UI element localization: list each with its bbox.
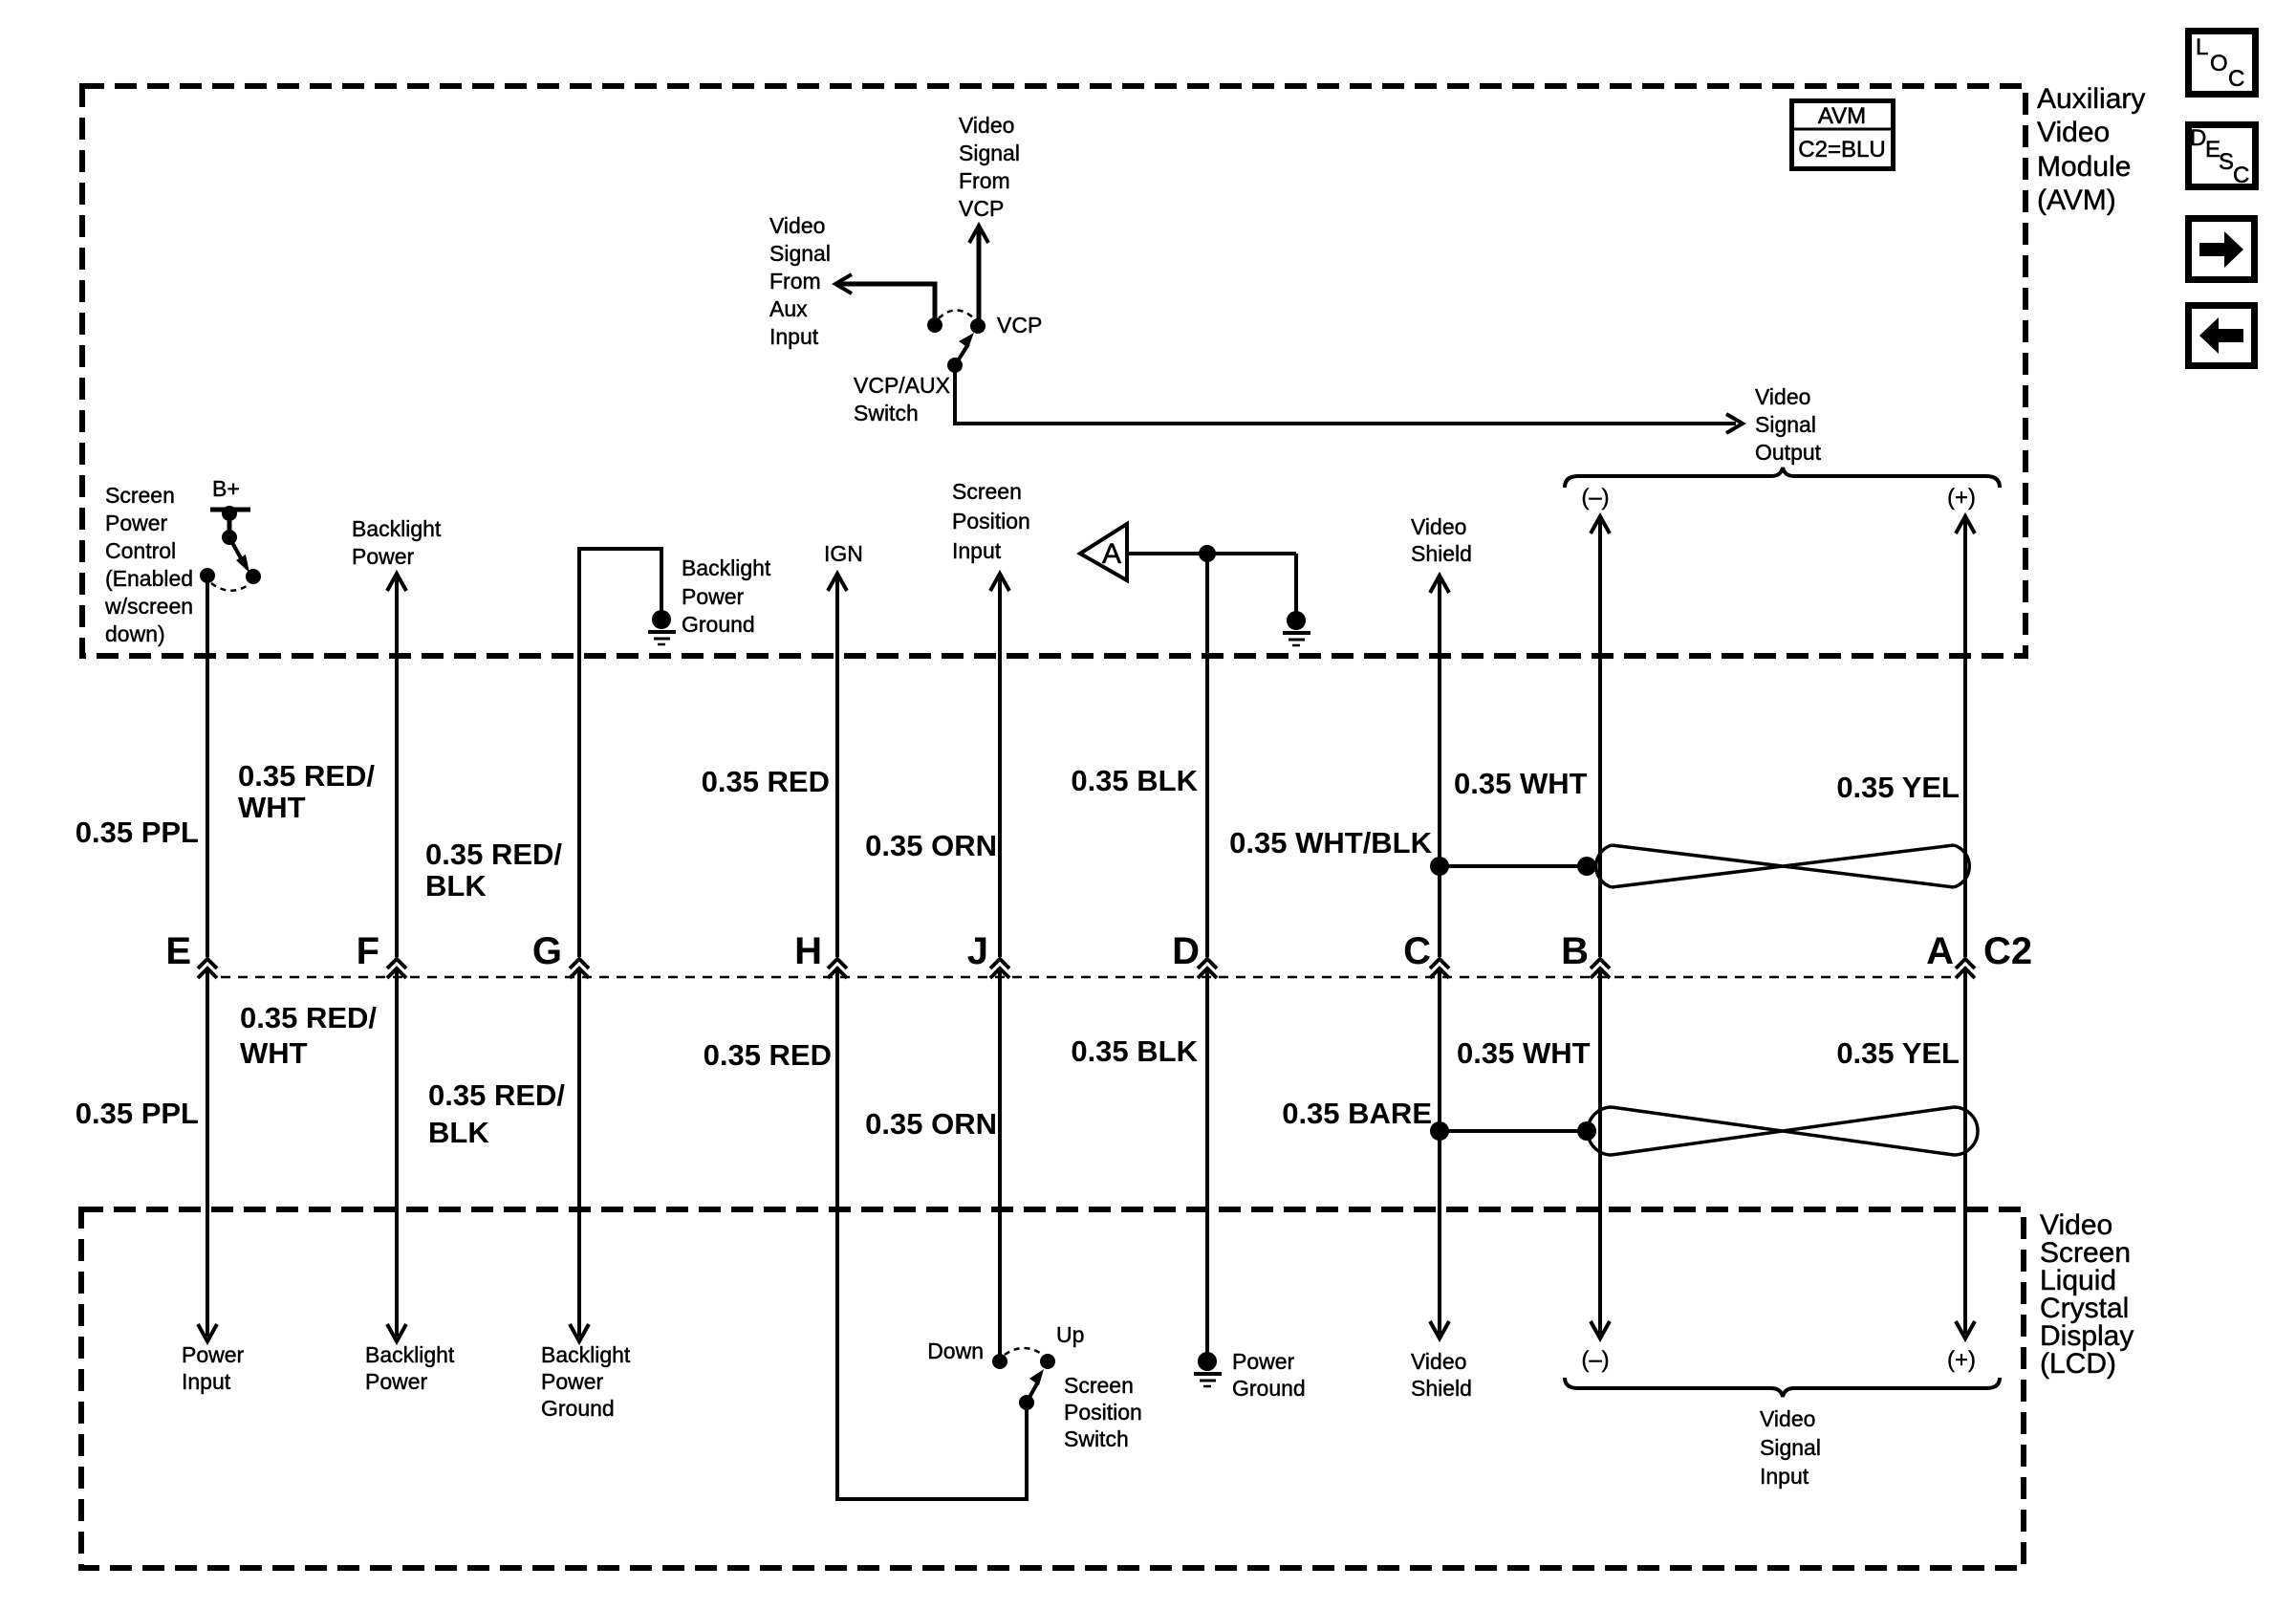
svg-text:w/screen: w/screen bbox=[104, 594, 193, 619]
svg-text:Ground: Ground bbox=[1232, 1376, 1306, 1401]
wire: B+ post to pivot bbox=[227, 513, 232, 537]
svg-text:C2=BLU: C2=BLU bbox=[1798, 137, 1885, 163]
wire B lower segment bbox=[1598, 969, 1602, 1334]
svg-text:Down: Down bbox=[927, 1338, 984, 1363]
arrowhead C video shield bbox=[1430, 1321, 1449, 1338]
switch lever screen power bbox=[229, 537, 249, 573]
label Video Signal Output bbox=[1755, 384, 1822, 465]
svg-text:D: D bbox=[2190, 125, 2206, 151]
svg-text:Backlight: Backlight bbox=[682, 555, 771, 580]
svg-text:Position: Position bbox=[1064, 1400, 1142, 1425]
wire C to B upper bbox=[1440, 864, 1587, 868]
svg-text:0.35 BLK: 0.35 BLK bbox=[1071, 764, 1198, 797]
wire C lower segment bbox=[1438, 969, 1441, 1334]
button arrow right bbox=[2189, 219, 2255, 280]
svg-text:From: From bbox=[769, 269, 821, 294]
svg-text:Signal: Signal bbox=[769, 241, 831, 266]
svg-text:C2: C2 bbox=[1983, 930, 2032, 972]
node: screen power right contact bbox=[246, 569, 261, 584]
wire D column vertical bbox=[1205, 554, 1209, 957]
button DESC bbox=[2189, 125, 2256, 189]
svg-text:A: A bbox=[1102, 538, 1121, 570]
wire C to B lower bbox=[1440, 1129, 1587, 1133]
wire G lower segment bbox=[577, 969, 581, 1337]
svg-text:BLK: BLK bbox=[428, 1116, 489, 1149]
connector pin F bbox=[387, 959, 406, 978]
svg-text:(–): (–) bbox=[1581, 485, 1609, 511]
svg-text:C: C bbox=[1403, 930, 1431, 972]
connector pin D bbox=[1198, 959, 1217, 978]
svg-text:Screen: Screen bbox=[952, 479, 1022, 504]
connector pin H bbox=[828, 959, 847, 978]
svg-text:B: B bbox=[1561, 930, 1589, 972]
svg-text:0.35 WHT/BLK: 0.35 WHT/BLK bbox=[1229, 826, 1432, 859]
svg-text:L: L bbox=[2196, 34, 2208, 60]
svg-text:Switch: Switch bbox=[854, 401, 919, 425]
wire F lower segment bbox=[395, 969, 399, 1337]
svg-text:Backlight: Backlight bbox=[352, 516, 442, 541]
svg-text:Video: Video bbox=[769, 213, 825, 238]
wire D lower segment bbox=[1205, 969, 1209, 1361]
svg-text:Video: Video bbox=[2037, 117, 2110, 148]
svg-text:Backlight: Backlight bbox=[365, 1342, 455, 1367]
svg-text:Input: Input bbox=[1760, 1464, 1809, 1489]
label Power Input bbox=[182, 1342, 245, 1394]
svg-text:Switch: Switch bbox=[1064, 1426, 1129, 1451]
svg-text:A: A bbox=[1926, 930, 1954, 972]
connector pin A bbox=[1956, 959, 1975, 978]
wire B minus with up arrow bbox=[1591, 516, 1610, 957]
label Screen Power Control (Enabled w/screen down) bbox=[104, 483, 193, 646]
twisted pair upper bbox=[1596, 845, 1970, 887]
svg-text:Output: Output bbox=[1755, 440, 1822, 465]
svg-text:0.35 RED/: 0.35 RED/ bbox=[428, 1078, 565, 1112]
svg-text:(–): (–) bbox=[1581, 1347, 1609, 1373]
svg-text:Video: Video bbox=[1411, 514, 1466, 539]
node: B twisted junction upper bbox=[1577, 857, 1596, 876]
svg-text:Backlight: Backlight bbox=[541, 1342, 631, 1367]
svg-text:F: F bbox=[357, 930, 379, 972]
svg-text:Ground: Ground bbox=[682, 612, 755, 637]
wire: aux input left arrow bbox=[835, 274, 935, 324]
switch arc (dashed) screen position bbox=[1005, 1348, 1043, 1355]
svg-text:VCP: VCP bbox=[997, 313, 1042, 337]
wire J screen position input with up arrow bbox=[990, 574, 1009, 957]
wire F backlight power with up arrow bbox=[387, 574, 406, 957]
svg-text:(+): (+) bbox=[1947, 485, 1976, 511]
svg-text:Signal: Signal bbox=[1755, 412, 1816, 437]
LCD side label bbox=[2040, 1209, 2134, 1380]
svg-text:0.35 WHT: 0.35 WHT bbox=[1454, 767, 1588, 800]
switch lever screen position bbox=[1027, 1369, 1044, 1403]
node: screen power switch pivot bbox=[222, 530, 237, 545]
svg-text:Power: Power bbox=[105, 511, 168, 535]
svg-text:B+: B+ bbox=[212, 476, 240, 501]
switch arc (dashed) screen power bbox=[211, 583, 249, 591]
svg-text:Input: Input bbox=[769, 324, 819, 349]
brace for video signal input pins bbox=[1565, 1378, 2000, 1397]
connector pin E bbox=[198, 959, 217, 978]
label Screen Position Input (AVM pin J) bbox=[952, 479, 1030, 563]
Auxiliary Video Module (AVM) dashed enclosure bbox=[82, 86, 2025, 656]
wire D junction drop to ground bbox=[1294, 554, 1298, 612]
svg-text:Power: Power bbox=[682, 584, 745, 609]
svg-text:0.35 RED/: 0.35 RED/ bbox=[238, 759, 375, 793]
label Backlight Power (AVM pin F) bbox=[352, 516, 442, 569]
wire: VCP output up arrow bbox=[969, 226, 988, 326]
svg-text:Video: Video bbox=[1411, 1349, 1466, 1374]
arrowhead A plus bbox=[1956, 1321, 1975, 1338]
svg-text:VCP: VCP bbox=[959, 196, 1004, 221]
node: switch common bbox=[947, 358, 963, 373]
ground: screen position input ground bbox=[1283, 611, 1310, 645]
switch lever VCP/AUX bbox=[955, 333, 974, 365]
svg-text:(+): (+) bbox=[1947, 1347, 1976, 1373]
svg-text:G: G bbox=[532, 930, 562, 972]
svg-text:J: J bbox=[967, 930, 988, 972]
wire J lower segment bbox=[998, 969, 1002, 1361]
node: down contact bbox=[992, 1354, 1007, 1369]
svg-text:D: D bbox=[1172, 930, 1200, 972]
button arrow left bbox=[2189, 306, 2255, 366]
label Backlight Power (LCD) bbox=[365, 1342, 455, 1394]
svg-text:0.35 YEL: 0.35 YEL bbox=[1836, 1036, 1960, 1070]
svg-text:0.35 BARE: 0.35 BARE bbox=[1282, 1097, 1432, 1130]
svg-text:(AVM): (AVM) bbox=[2037, 185, 2116, 216]
ground: power ground (LCD) bbox=[1194, 1352, 1222, 1386]
arrowhead B minus bbox=[1591, 1321, 1610, 1338]
svg-text:Shield: Shield bbox=[1411, 541, 1472, 566]
svg-text:Power: Power bbox=[365, 1369, 428, 1394]
AVM module side label bbox=[2037, 83, 2145, 216]
svg-text:O: O bbox=[2210, 51, 2228, 76]
label VCP/AUX Switch bbox=[854, 373, 950, 425]
brace for video signal output pins bbox=[1565, 468, 2000, 488]
wire label 0.35 RED/BLK lower bbox=[428, 1078, 565, 1149]
wire A lower segment bbox=[1963, 969, 1967, 1334]
svg-text:Power: Power bbox=[1232, 1349, 1295, 1374]
B+ terminal bar bbox=[210, 508, 250, 512]
connector pin J bbox=[990, 959, 1009, 978]
svg-text:0.35 YEL: 0.35 YEL bbox=[1836, 771, 1960, 804]
svg-text:Module: Module bbox=[2037, 151, 2131, 183]
svg-text:0.35 ORN: 0.35 ORN bbox=[865, 1107, 997, 1141]
wire H IGN with up arrow bbox=[828, 574, 847, 957]
svg-text:Shield: Shield bbox=[1411, 1376, 1472, 1401]
svg-text:VCP/AUX: VCP/AUX bbox=[854, 373, 950, 398]
label Video Signal Input bbox=[1760, 1406, 1821, 1489]
svg-text:C: C bbox=[2233, 163, 2249, 188]
svg-text:Signal: Signal bbox=[959, 141, 1020, 165]
svg-text:Video: Video bbox=[1760, 1406, 1815, 1431]
svg-text:E: E bbox=[165, 930, 191, 972]
node: screen position switch common bbox=[1019, 1395, 1034, 1410]
svg-text:Aux: Aux bbox=[769, 296, 808, 321]
twisted pair lower bbox=[1588, 1107, 1978, 1155]
connector pin C bbox=[1430, 959, 1449, 978]
svg-text:Input: Input bbox=[182, 1369, 231, 1394]
svg-text:(LCD): (LCD) bbox=[2040, 1348, 2116, 1380]
svg-text:Auxiliary: Auxiliary bbox=[2037, 83, 2145, 115]
wire H lower segment to screen position switch bbox=[837, 969, 1027, 1499]
svg-text:(Enabled: (Enabled bbox=[105, 566, 193, 591]
svg-text:WHT: WHT bbox=[240, 1036, 308, 1070]
label Video Signal From Aux Input bbox=[769, 213, 831, 349]
wire E lower segment bbox=[206, 969, 209, 1337]
svg-text:0.35 BLK: 0.35 BLK bbox=[1071, 1034, 1198, 1068]
svg-text:0.35 PPL: 0.35 PPL bbox=[76, 1097, 199, 1130]
label Backlight Power Ground (AVM pin G) bbox=[682, 555, 771, 637]
svg-text:S: S bbox=[2219, 149, 2234, 175]
svg-text:0.35 RED: 0.35 RED bbox=[702, 765, 830, 798]
label Screen Position Switch bbox=[1064, 1373, 1142, 1451]
svg-text:0.35 RED/: 0.35 RED/ bbox=[240, 1001, 377, 1034]
label Backlight Power Ground (LCD) bbox=[541, 1342, 631, 1421]
svg-text:0.35 ORN: 0.35 ORN bbox=[865, 829, 997, 862]
svg-text:Control: Control bbox=[105, 538, 176, 563]
svg-text:down): down) bbox=[105, 621, 165, 646]
svg-text:Power: Power bbox=[352, 544, 415, 569]
node: C shield junction lower bbox=[1430, 1121, 1449, 1141]
svg-text:Video: Video bbox=[1755, 384, 1810, 409]
node: C shield junction upper bbox=[1430, 857, 1449, 876]
svg-text:From: From bbox=[959, 168, 1010, 193]
connector pin B bbox=[1591, 959, 1610, 978]
button LOC bbox=[2189, 32, 2256, 95]
arrowhead G backlight power ground bbox=[570, 1324, 589, 1341]
svg-text:Power: Power bbox=[541, 1369, 604, 1394]
ground: backlight power ground bbox=[648, 610, 676, 644]
svg-text:BLK: BLK bbox=[425, 869, 487, 903]
arrowhead F backlight power bbox=[387, 1324, 406, 1341]
svg-text:Power: Power bbox=[182, 1342, 245, 1367]
node: AUX contact bbox=[927, 317, 942, 333]
node: VCP contact bbox=[970, 318, 986, 334]
label Video Shield (AVM pin C) bbox=[1411, 514, 1472, 566]
node: D junction bbox=[1199, 545, 1216, 562]
svg-text:Up: Up bbox=[1056, 1322, 1084, 1347]
svg-text:Screen: Screen bbox=[105, 483, 175, 508]
svg-text:0.35 PPL: 0.35 PPL bbox=[76, 816, 199, 849]
connector pin G bbox=[570, 959, 589, 978]
node: B twisted junction lower bbox=[1577, 1121, 1596, 1141]
wire: switch common to video signal output bbox=[955, 365, 1736, 424]
wire label 0.35 RED/WHT upper bbox=[238, 759, 375, 824]
svg-text:0.35 RED/: 0.35 RED/ bbox=[425, 838, 562, 871]
wire label 0.35 RED/WHT lower bbox=[240, 1001, 377, 1070]
label Video Shield (LCD) bbox=[1411, 1349, 1472, 1401]
wire A plus with up arrow bbox=[1956, 516, 1975, 957]
svg-text:Input: Input bbox=[952, 538, 1002, 563]
wire buffer output to D column bbox=[1127, 552, 1296, 555]
node: B+ post bbox=[222, 506, 237, 521]
svg-text:Ground: Ground bbox=[541, 1396, 615, 1421]
svg-text:Position: Position bbox=[952, 509, 1030, 533]
svg-text:WHT: WHT bbox=[238, 791, 306, 824]
wire E screen power control vertical bbox=[206, 576, 209, 957]
wire G backlight power ground elbow bbox=[579, 549, 661, 957]
switch arc (dashed) VCP/AUX bbox=[939, 311, 974, 319]
wire label 0.35 RED/BLK upper bbox=[425, 838, 562, 903]
node: screen power left contact bbox=[200, 568, 215, 583]
arrowhead E power input bbox=[198, 1324, 217, 1341]
svg-text:C: C bbox=[2228, 66, 2244, 92]
svg-text:IGN: IGN bbox=[824, 541, 863, 566]
Video Screen LCD dashed enclosure bbox=[81, 1209, 2024, 1568]
svg-text:0.35 RED: 0.35 RED bbox=[704, 1038, 832, 1072]
svg-text:AVM: AVM bbox=[1818, 103, 1866, 129]
label Video Signal From VCP bbox=[959, 113, 1020, 221]
svg-text:0.35 WHT: 0.35 WHT bbox=[1457, 1036, 1591, 1070]
label Power Ground bbox=[1232, 1349, 1306, 1401]
op-amp buffer A bbox=[1080, 524, 1127, 580]
svg-text:Video: Video bbox=[959, 113, 1014, 138]
svg-text:H: H bbox=[794, 930, 822, 972]
svg-text:Signal: Signal bbox=[1760, 1435, 1821, 1460]
wire C video shield with up arrow bbox=[1430, 576, 1449, 957]
node: up contact bbox=[1040, 1354, 1055, 1369]
AVM connector ID box AVM / C2=BLU bbox=[1792, 101, 1894, 169]
connector row dashed line C2 bbox=[221, 976, 1954, 979]
arrowhead video signal output bbox=[1726, 414, 1743, 433]
svg-text:Screen: Screen bbox=[1064, 1373, 1134, 1398]
